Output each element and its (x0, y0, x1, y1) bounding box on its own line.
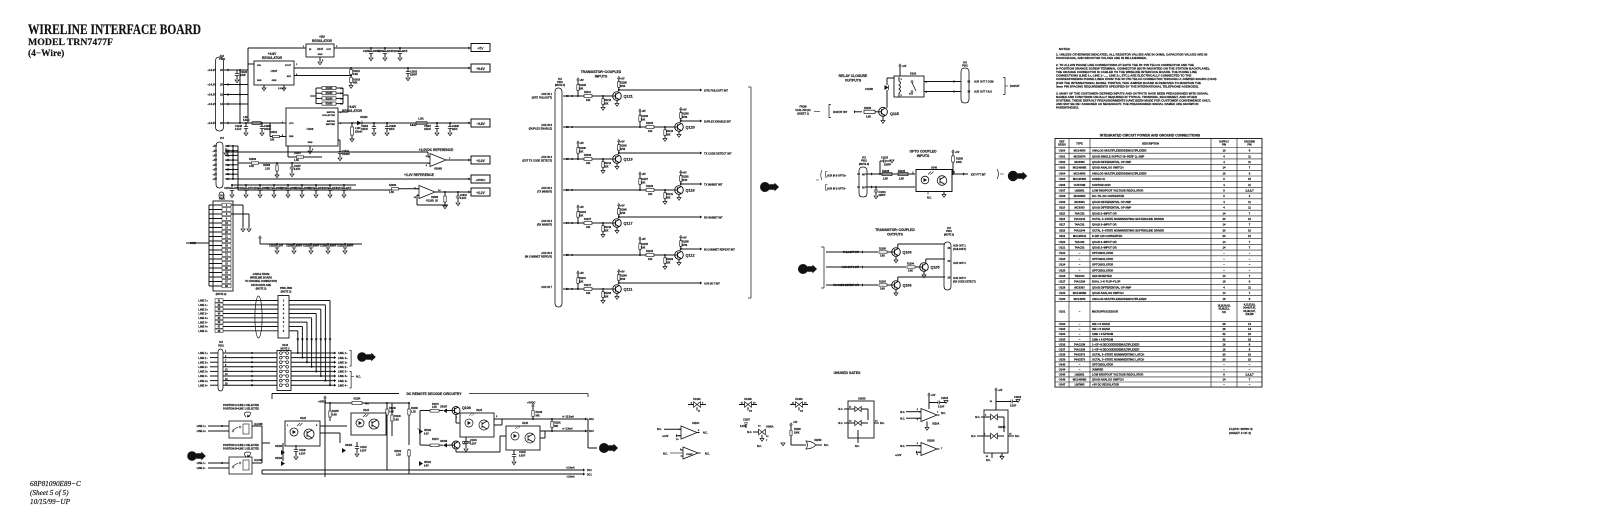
svg-text:U146: U146 (1059, 378, 1066, 382)
svg-text:3.9K: 3.9K (880, 289, 885, 291)
svg-text:Q115: Q115 (890, 112, 899, 116)
svg-text:10K: 10K (586, 162, 591, 165)
svg-text:U100: U100 (1059, 149, 1066, 153)
svg-text:A: A (762, 185, 767, 192)
svg-text:ANALOG MULTIPLEXER/DEMULTIPLE: ANALOG MULTIPLEXER/DEMULTIPLEXER (1092, 149, 1146, 153)
svg-text:VCC: VCC (289, 123, 294, 125)
svg-text:220PF: 220PF (884, 164, 892, 167)
transistor Q115 (879, 107, 888, 116)
svg-text:+5V: +5V (212, 149, 217, 153)
capacitor C1173 100UF (273, 185, 275, 189)
svg-text:74AC32: 74AC32 (1075, 211, 1085, 215)
svg-text:74HC573: 74HC573 (1074, 352, 1086, 356)
svg-text:C1908: C1908 (452, 126, 459, 128)
svg-text:LINE 4+: LINE 4+ (338, 379, 348, 383)
svg-text:C1143: C1143 (519, 451, 526, 454)
svg-text:SITE FAILSOFT INT: SITE FAILSOFT INT (704, 88, 728, 92)
svg-text:2.2K: 2.2K (265, 169, 270, 171)
svg-text:U101: U101 (1059, 154, 1066, 158)
svg-text:TRANSISTOR−COUPLED: TRANSISTOR−COUPLED (875, 228, 915, 232)
svg-text:U145: U145 (1059, 373, 1066, 377)
svg-text:R1134: R1134 (579, 277, 586, 280)
capacitor C1148 0.1UF (245, 123, 247, 127)
svg-text:22UF: 22UF (452, 129, 458, 131)
svg-text:LINE 1+: LINE 1+ (198, 351, 208, 355)
cable shield oval (255, 296, 262, 338)
svg-text:10K: 10K (579, 215, 584, 217)
svg-text:AUX IN 9 OPTO+: AUX IN 9 OPTO+ (827, 174, 847, 177)
wire +5V rail (248, 47, 306, 49)
svg-text:U106: U106 (307, 127, 314, 131)
svg-text:10: 10 (1248, 228, 1251, 232)
svg-text:16: 16 (1248, 332, 1251, 336)
svg-text:OUTPUTS: OUTPUTS (845, 79, 862, 83)
svg-text:J: J (190, 454, 194, 461)
svg-text:ON BACKPLANE: ON BACKPLANE (251, 284, 271, 287)
svg-text:N.C.: N.C. (855, 446, 860, 448)
svg-text:74AC244: 74AC244 (1074, 217, 1086, 221)
svg-text:16: 16 (1223, 280, 1226, 284)
connector P101 pin 67 GND (222, 280, 231, 284)
svg-text:MC3303: MC3303 (1074, 160, 1085, 164)
svg-text:14: 14 (1223, 246, 1226, 250)
svg-text:OUT: OUT (326, 49, 331, 51)
svg-text:RCSTAT: RCSTAT (1010, 85, 1020, 88)
svg-text:+5V: +5V (642, 239, 647, 241)
resistor R1203 3.9K (879, 284, 887, 286)
svg-text:LINE 4+: LINE 4+ (198, 379, 208, 383)
svg-text:74AC32: 74AC32 (1075, 240, 1085, 244)
connector P101 pin 20 GND (222, 230, 231, 234)
svg-text:QUAD SINGLE SUPPLY HI−PERF: QUAD SINGLE SUPPLY HI−PERF Q. AMP (1092, 154, 1144, 158)
wire decode bus right (587, 419, 589, 448)
svg-text:VR100: VR100 (424, 430, 432, 432)
svg-text:LINE 3+: LINE 3+ (198, 316, 208, 320)
svg-text:N.C.: N.C. (880, 423, 885, 425)
resistor R1210 10K base (602, 223, 604, 226)
svg-text:1UF: 1UF (279, 246, 284, 248)
svg-text:U130D: U130D (858, 398, 866, 401)
svg-text:U110D: U110D (426, 200, 434, 203)
power +5V collector R1181 (680, 170, 683, 172)
svg-text:U103: U103 (1059, 166, 1066, 170)
svg-text:R1234: R1234 (579, 211, 587, 214)
svg-text:C1144: C1144 (470, 439, 477, 442)
resistor R1209 10K (584, 158, 592, 161)
svg-text:R1169: R1169 (394, 451, 401, 453)
svg-text:10K: 10K (666, 134, 671, 136)
svg-text:P101: P101 (219, 57, 226, 61)
net RCSTAT INT bracket (829, 105, 831, 118)
resistor R1212 10K base (602, 159, 604, 162)
svg-text:(RX INHIBIT): (RX INHIBIT) (537, 222, 552, 226)
svg-text:U131: U131 (1059, 309, 1066, 313)
svg-text:WIRELINE BOARD: WIRELINE BOARD (250, 277, 272, 280)
svg-text:R1155: R1155 (332, 411, 339, 413)
svg-text:10K: 10K (641, 247, 646, 249)
svg-text:U122: U122 (1059, 251, 1066, 255)
svg-text:VR101: VR101 (424, 462, 432, 464)
svg-text:QUAD 2−INPUT OR: QUAD 2−INPUT OR (1092, 246, 1117, 250)
svg-text:0.1UF: 0.1UF (519, 456, 526, 458)
svg-text:MC14053: MC14053 (1074, 149, 1086, 153)
svg-text:R1183: R1183 (682, 114, 689, 116)
svg-text:10K: 10K (604, 166, 609, 168)
svg-text:N.C.: N.C. (838, 423, 843, 425)
svg-text:OPTO COUPLED: OPTO COUPLED (909, 150, 937, 154)
ground Q120 emitter (678, 131, 680, 134)
connector P101 GND block (219, 192, 224, 199)
resistor R1214 10K base (602, 96, 604, 99)
svg-text:Q108: Q108 (462, 406, 471, 410)
svg-text:N.C.: N.C. (705, 453, 710, 456)
svg-text:COLLECTOR: COLLECTOR (322, 115, 335, 117)
resistor R1154 470 (352, 402, 362, 405)
svg-text:QUAD ANALOG SWITCH: QUAD ANALOG SWITCH (1092, 166, 1124, 170)
svg-text:AUX OUT 3 INT: AUX OUT 3 INT (842, 266, 860, 269)
svg-text:CR103: CR103 (275, 446, 283, 448)
ground Q106 (895, 289, 897, 292)
svg-text:74AC244: 74AC244 (1074, 228, 1086, 232)
svg-text:1500PF: 1500PF (342, 154, 351, 156)
capacitor C1902 100UF (261, 123, 263, 127)
ground Q117 emitter (616, 227, 618, 230)
svg-text:R1001: R1001 (270, 131, 278, 134)
connector J to sheet (357, 352, 367, 362)
svg-text:U110A: U110A (932, 423, 940, 426)
capacitor C1909 22UF (386, 123, 388, 127)
svg-text:84,102,107,: 84,102,107, (1243, 310, 1255, 313)
capacitor C1200 860PF (327, 244, 329, 246)
power +5V collector R1192 (618, 139, 621, 141)
capacitor C1174 22UF (343, 185, 345, 189)
svg-text:WIRELINE INTERFACE BOARD: WIRELINE INTERFACE BOARD (28, 22, 201, 38)
svg-text:NOTES:: NOTES: (1059, 47, 1070, 51)
svg-text:10K: 10K (666, 262, 671, 264)
resistor R1209 10K base (664, 255, 666, 258)
svg-text:74HC573: 74HC573 (1074, 357, 1086, 361)
svg-text:QUAD DIFFERENTIAL OP AMP: QUAD DIFFERENTIAL OP AMP (1092, 200, 1131, 204)
resistor R1007 1.5K (297, 156, 304, 158)
svg-text:+5V: +5V (682, 173, 687, 175)
wire relay loop (887, 77, 894, 79)
wire DUPLEX ENABLE INT (681, 120, 700, 122)
svg-text:U123: U123 (1059, 257, 1066, 261)
resistor R1158 2.9K (864, 110, 875, 113)
ground Q105 (923, 271, 925, 274)
svg-text:U109: U109 (1059, 200, 1066, 204)
svg-text:INTEGRATED CIRCUIT POWER AND G: INTEGRATED CIRCUIT POWER AND GROUND CONN… (1100, 134, 1201, 138)
svg-text:+5V: +5V (902, 65, 907, 68)
svg-text:+2.5mA: +2.5mA (566, 467, 575, 470)
svg-text:PICOFARADS, AND INDUCTOR VA: PICOFARADS, AND INDUCTOR VALUES ARE IN M… (1056, 56, 1147, 60)
svg-text:DC REMOTE DECODE CIRCUITRY: DC REMOTE DECODE CIRCUITRY (406, 392, 462, 396)
svg-text:R1229: R1229 (646, 185, 654, 188)
svg-text:−2.5mA: −2.5mA (566, 476, 575, 479)
capacitor C1013 0.1UF (457, 192, 459, 196)
svg-text:16: 16 (1223, 297, 1226, 301)
svg-text:+5V: +5V (642, 111, 647, 113)
svg-text:1.2K: 1.2K (411, 412, 416, 414)
svg-text:R1217: R1217 (584, 284, 592, 287)
net label +5VDC box (471, 175, 490, 183)
svg-text:INPUTS: INPUTS (595, 75, 608, 79)
svg-text:LINE 4+: LINE 4+ (198, 325, 208, 329)
svg-text:N.C.: N.C. (356, 376, 361, 379)
svg-text:10: 10 (1248, 217, 1251, 221)
net LINE 2− right stub (334, 365, 336, 368)
resistor R1180 100K (952, 150, 955, 152)
svg-text:R1308: R1308 (263, 165, 270, 167)
svg-text:R1003: R1003 (326, 104, 333, 106)
svg-text:10: 10 (1248, 352, 1251, 356)
svg-text:56K: 56K (554, 426, 559, 428)
svg-text:U106B: U106B (434, 168, 442, 171)
svg-text:MICROPROCESSOR: MICROPROCESSOR (1092, 309, 1118, 313)
resistor R1230 10K (646, 126, 654, 129)
analog switch pair U104A (995, 388, 998, 390)
svg-text:6.2V: 6.2V (424, 434, 429, 436)
svg-text:MC14066B: MC14066B (1073, 378, 1087, 382)
svg-text:+14.2V: +14.2V (207, 83, 216, 87)
svg-text:220PF: 220PF (879, 194, 887, 197)
svg-text:4.7K: 4.7K (432, 406, 437, 409)
svg-text:74AC138: 74AC138 (1074, 347, 1086, 351)
svg-text:U117: U117 (1059, 223, 1066, 227)
svg-text:U124: U124 (476, 409, 483, 412)
svg-text:Q120: Q120 (686, 126, 695, 130)
svg-text:6.8uH: 6.8uH (410, 125, 417, 127)
resistor R1011 5.6K (350, 68, 352, 70)
svg-text:+5VDC: +5VDC (527, 401, 536, 405)
svg-text:LINE 2−: LINE 2− (198, 312, 208, 316)
svg-text:20: 20 (1223, 357, 1226, 361)
power +5V collector R1185 (680, 235, 683, 237)
svg-text:2,3,6,7: 2,3,6,7 (1245, 189, 1254, 193)
net LINE 3+ right stub (334, 374, 336, 377)
svg-text:16: 16 (1223, 149, 1226, 153)
svg-text:SWITCH: SWITCH (327, 112, 336, 114)
svg-text:U125: U125 (522, 422, 529, 425)
svg-text:+14.2V: +14.2V (207, 93, 216, 97)
svg-text:R1006: R1006 (326, 88, 333, 90)
svg-text:N.C.: N.C. (900, 411, 905, 414)
svg-text:0.1UF: 0.1UF (235, 128, 242, 131)
svg-text:10K: 10K (579, 281, 584, 283)
svg-text:R1166: R1166 (389, 408, 396, 410)
svg-text:PIN: PIN (1222, 144, 1226, 147)
svg-text:U119: U119 (1059, 234, 1066, 238)
wire RX INHIBIT INT (619, 216, 700, 218)
connector J from sheet (187, 451, 197, 461)
svg-text:34,44,57,67,: 34,44,57,67, (1243, 307, 1256, 310)
svg-text:6.8uH: 6.8uH (243, 119, 250, 122)
svg-text:U110: U110 (1059, 206, 1066, 210)
svg-text:U146A: U146A (766, 426, 774, 429)
capacitor C1198 860PF (293, 244, 295, 246)
svg-text:CR10B: CR10B (865, 88, 873, 91)
connector P101 pin 21 GND (222, 235, 231, 239)
wire fan from P500 to U144 (289, 300, 330, 302)
svg-text:(NOTE 2): (NOTE 2) (216, 293, 227, 296)
svg-text:N.C.: N.C. (986, 460, 991, 462)
svg-text:Q119: Q119 (624, 158, 633, 162)
svg-text:R1212: R1212 (604, 163, 612, 165)
svg-text:U130: U130 (1059, 297, 1066, 301)
svg-text:U125: U125 (1059, 268, 1066, 272)
connector P101 pin 60 GND (222, 266, 231, 270)
transistor Q106 (892, 281, 901, 290)
svg-text:LINE 2+: LINE 2+ (198, 307, 208, 311)
power +5V relay (899, 64, 902, 66)
wire SITE FAILSOFT INT (619, 89, 700, 91)
resistor R1169 2.2K (408, 450, 410, 456)
svg-text:4,13,33,29,: 4,13,33,29, (1244, 303, 1256, 306)
connector P101 upper flag (216, 57, 224, 131)
svg-text:10K: 10K (666, 197, 671, 199)
svg-text:0.1UF: 0.1UF (299, 454, 306, 456)
svg-text:220PF: 220PF (410, 74, 418, 77)
svg-text:20: 20 (1223, 234, 1226, 238)
net LINE 4− right stub (334, 384, 336, 387)
svg-text:AUX IN 2: AUX IN 2 (541, 186, 552, 190)
svg-text:U128: U128 (1059, 285, 1066, 289)
svg-text:U104: U104 (1059, 171, 1066, 175)
op-amp U110A unused (928, 393, 931, 395)
svg-text:DC1: DC1 (587, 475, 592, 477)
transistor Q105 (920, 263, 929, 272)
svg-text:LINE 4−: LINE 4− (198, 383, 208, 387)
svg-text:14: 14 (1223, 274, 1226, 278)
svg-text:RX INHIBIT INT: RX INHIBIT INT (704, 215, 723, 219)
svg-text:R1204: R1204 (907, 263, 914, 266)
svg-text:QUAD 2−INPUT OR: QUAD 2−INPUT OR (1092, 223, 1117, 227)
svg-text:10K: 10K (586, 226, 591, 229)
wire AUX IN 7 INT (619, 282, 700, 284)
svg-text:10UF: 10UF (240, 74, 246, 77)
wire Q100 collector to P001 (897, 244, 899, 248)
svg-text:C1907: C1907 (424, 126, 431, 128)
capacitor C1163 100UF (301, 185, 303, 189)
svg-text:N.C.: N.C. (657, 428, 662, 431)
svg-text:LINE 1−: LINE 1− (198, 356, 208, 360)
svg-text:16: 16 (1223, 347, 1226, 351)
svg-text:18,28,36,62,: 18,28,36,62, (1218, 305, 1231, 307)
svg-text:C1155: C1155 (363, 50, 371, 53)
net label -9.8V box (471, 119, 490, 127)
svg-text:LOW DROPOUT VOLTAGE REGULAT: LOW DROPOUT VOLTAGE REGULATOR (1092, 373, 1143, 377)
ground Q100 (895, 256, 897, 259)
svg-text:POSITION B=LINE 1 SELECTED: POSITION B=LINE 1 SELECTED (223, 407, 259, 410)
svg-text:C1197: C1197 (269, 246, 276, 248)
svg-text:LINE 4−: LINE 4− (338, 383, 348, 387)
svg-text:(IN CABINET REPEAT): (IN CABINET REPEAT) (525, 254, 552, 258)
svg-text:56K: 56K (353, 82, 358, 85)
svg-text:N.C.: N.C. (927, 197, 932, 200)
svg-text:U138: U138 (1059, 352, 1066, 356)
svg-text:3.6K: 3.6K (389, 412, 394, 414)
svg-text:10K: 10K (270, 139, 275, 142)
svg-text:VOUT: VOUT (285, 65, 292, 67)
svg-text:20: 20 (1223, 228, 1226, 232)
svg-text:LINE 4−: LINE 4− (198, 329, 208, 333)
svg-text:(SITE FAILSOFT): (SITE FAILSOFT) (532, 95, 553, 99)
capacitor C1201 860PF (344, 244, 346, 246)
wire bypass cap rail (232, 184, 356, 186)
svg-text:100K: 100K (794, 432, 800, 434)
wire opto input rows (865, 173, 915, 175)
svg-text:OPTOISOLATOR: OPTOISOLATOR (1092, 363, 1113, 367)
resistor network R1003-R1006 (322, 86, 336, 89)
capacitor C1908 22UF (449, 123, 451, 127)
svg-text:R1209: R1209 (584, 154, 592, 157)
svg-text:LINE 2−: LINE 2− (338, 365, 348, 369)
svg-text:4700: 4700 (620, 212, 626, 215)
capacitor C1197 1UF (276, 244, 278, 246)
svg-text:VIN: VIN (257, 65, 261, 67)
capacitor C1157 0.1UF (291, 163, 293, 167)
svg-text:+9.6V: +9.6V (476, 67, 485, 71)
svg-text:QUAD ANALOG SWITCH: QUAD ANALOG SWITCH (1092, 291, 1124, 295)
svg-text:10K: 10K (641, 182, 646, 184)
svg-text:128k × 8 EPROM: 128k × 8 EPROM (1092, 337, 1114, 341)
svg-text:14: 14 (1223, 211, 1226, 215)
svg-text:10K: 10K (648, 130, 653, 133)
power +5V pullup R1246 (577, 78, 580, 80)
svg-text:INPUTS: INPUTS (917, 154, 930, 158)
resistor R1009 1.5K (392, 188, 399, 190)
svg-text:CR106: CR106 (440, 441, 448, 443)
svg-text:MC3303: MC3303 (1074, 285, 1085, 289)
svg-text:22UF: 22UF (389, 129, 395, 131)
bracket LINE right lower (350, 372, 352, 389)
svg-text:CR104: CR104 (345, 444, 353, 447)
svg-text:2.2K: 2.2K (396, 455, 401, 457)
svg-text:3.6K: 3.6K (332, 415, 337, 417)
svg-text:U107: U107 (1059, 189, 1066, 193)
capacitor C1153 100UF (287, 185, 289, 189)
svg-text:AUX IN 4: AUX IN 4 (541, 219, 552, 223)
svg-text:(Sheet 5 of 5): (Sheet 5 of 5) (30, 489, 69, 497)
bracket outputs (821, 246, 824, 248)
svg-text:(NOTE 2): (NOTE 2) (256, 287, 267, 290)
svg-text:RELAY CLOSURE: RELAY CLOSURE (839, 74, 868, 78)
capacitor C1907 100UF (436, 123, 438, 127)
svg-text:0.1UF: 0.1UF (470, 444, 477, 446)
svg-text:OCTAL 3−STATE NONINVERTING: OCTAL 3−STATE NONINVERTING LATCH (1092, 352, 1144, 356)
svg-text:4700: 4700 (620, 148, 626, 151)
svg-text:QUAD DIFFERENTIAL OP AMP: QUAD DIFFERENTIAL OP AMP (1092, 160, 1131, 164)
power +5V pullup R1234 (577, 205, 580, 207)
svg-text:(EXT TX CODE DETECT): (EXT TX CODE DETECT) (522, 158, 552, 162)
svg-text:0.1UF: 0.1UF (460, 198, 467, 200)
svg-text:TO ORANGE CONNECTOR: TO ORANGE CONNECTOR (245, 280, 277, 283)
svg-text:LINE 3+: LINE 3+ (198, 370, 208, 374)
svg-text:CODEC IC: CODEC IC (1092, 177, 1105, 181)
svg-text:R1213: R1213 (666, 131, 674, 133)
connector P500 body (278, 296, 289, 339)
svg-text:R1006: R1006 (249, 158, 257, 161)
svg-text:TX INHIBIT INT: TX INHIBIT INT (704, 182, 723, 186)
svg-text:32k × 8 SRAM: 32k × 8 SRAM (1092, 327, 1110, 331)
svg-text:Q100: Q100 (903, 251, 912, 255)
svg-text:5.6K: 5.6K (353, 73, 358, 76)
svg-text:10K: 10K (586, 292, 591, 295)
resistor R1217 10K (584, 288, 592, 291)
ground Q119 emitter (616, 163, 618, 166)
svg-text:SWITCH: SWITCH (327, 121, 336, 123)
svg-text:4700: 4700 (682, 116, 688, 119)
